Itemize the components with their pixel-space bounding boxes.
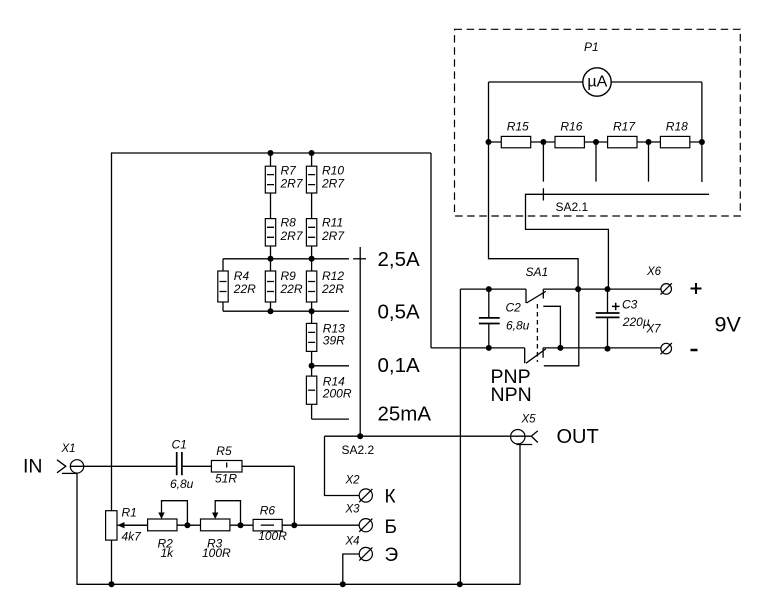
- svg-text:OUT: OUT: [557, 426, 599, 448]
- svg-text:SA2.1: SA2.1: [556, 200, 589, 214]
- svg-text:R17: R17: [613, 120, 636, 134]
- svg-text:C1: C1: [172, 438, 187, 452]
- svg-text:R4: R4: [234, 269, 250, 283]
- svg-text:X3: X3: [345, 503, 361, 515]
- svg-text:2R7: 2R7: [321, 176, 345, 190]
- svg-text:R15: R15: [507, 120, 529, 134]
- svg-text:0,5A: 0,5A: [378, 300, 420, 323]
- svg-text:µA: µA: [587, 73, 607, 90]
- svg-text:X2: X2: [345, 474, 361, 486]
- svg-text:R18: R18: [666, 120, 688, 134]
- svg-text:R9: R9: [281, 269, 297, 283]
- svg-text:К: К: [385, 486, 396, 507]
- svg-text:IN: IN: [23, 456, 43, 478]
- svg-text:2R7: 2R7: [321, 229, 345, 243]
- svg-text:22R: 22R: [233, 282, 256, 296]
- svg-text:200R: 200R: [322, 386, 352, 400]
- svg-text:25mA: 25mA: [378, 402, 432, 425]
- svg-text:R5: R5: [216, 444, 232, 458]
- svg-text:C3: C3: [622, 298, 638, 312]
- svg-text:2R7: 2R7: [280, 176, 304, 190]
- svg-text:51R: 51R: [215, 472, 237, 486]
- svg-text:X5: X5: [521, 413, 537, 425]
- svg-text:Б: Б: [385, 517, 397, 538]
- svg-text:X7: X7: [646, 323, 662, 335]
- svg-text:2,5A: 2,5A: [378, 248, 420, 271]
- svg-text:X6: X6: [646, 266, 662, 278]
- svg-text:NPN: NPN: [491, 384, 532, 406]
- svg-text:2R7: 2R7: [280, 229, 304, 243]
- svg-text:6,8u: 6,8u: [506, 319, 530, 333]
- svg-text:R1: R1: [122, 506, 137, 520]
- svg-text:R11: R11: [322, 216, 343, 230]
- svg-text:Э: Э: [385, 545, 399, 566]
- svg-text:SA1: SA1: [526, 265, 549, 279]
- svg-text:P1: P1: [584, 40, 599, 54]
- svg-text:1k: 1k: [161, 546, 175, 560]
- svg-text:X1: X1: [61, 443, 76, 455]
- svg-text:6,8u: 6,8u: [170, 477, 194, 491]
- svg-text:C2: C2: [506, 300, 522, 314]
- svg-text:22R: 22R: [280, 282, 303, 296]
- svg-text:R12: R12: [322, 269, 344, 283]
- svg-text:SA2.2: SA2.2: [342, 443, 375, 457]
- svg-text:X4: X4: [345, 535, 360, 547]
- svg-text:100R: 100R: [202, 546, 231, 560]
- svg-text:100R: 100R: [258, 529, 287, 543]
- svg-text:R6: R6: [260, 504, 276, 518]
- svg-text:R16: R16: [560, 120, 582, 134]
- svg-text:0,1A: 0,1A: [378, 354, 420, 377]
- svg-text:22R: 22R: [321, 282, 344, 296]
- svg-text:39R: 39R: [323, 333, 345, 347]
- svg-text:R8: R8: [281, 216, 297, 230]
- svg-text:R7: R7: [281, 163, 298, 177]
- svg-text:4k7: 4k7: [122, 529, 143, 543]
- svg-text:R10: R10: [322, 163, 344, 177]
- svg-text:9V: 9V: [715, 312, 742, 336]
